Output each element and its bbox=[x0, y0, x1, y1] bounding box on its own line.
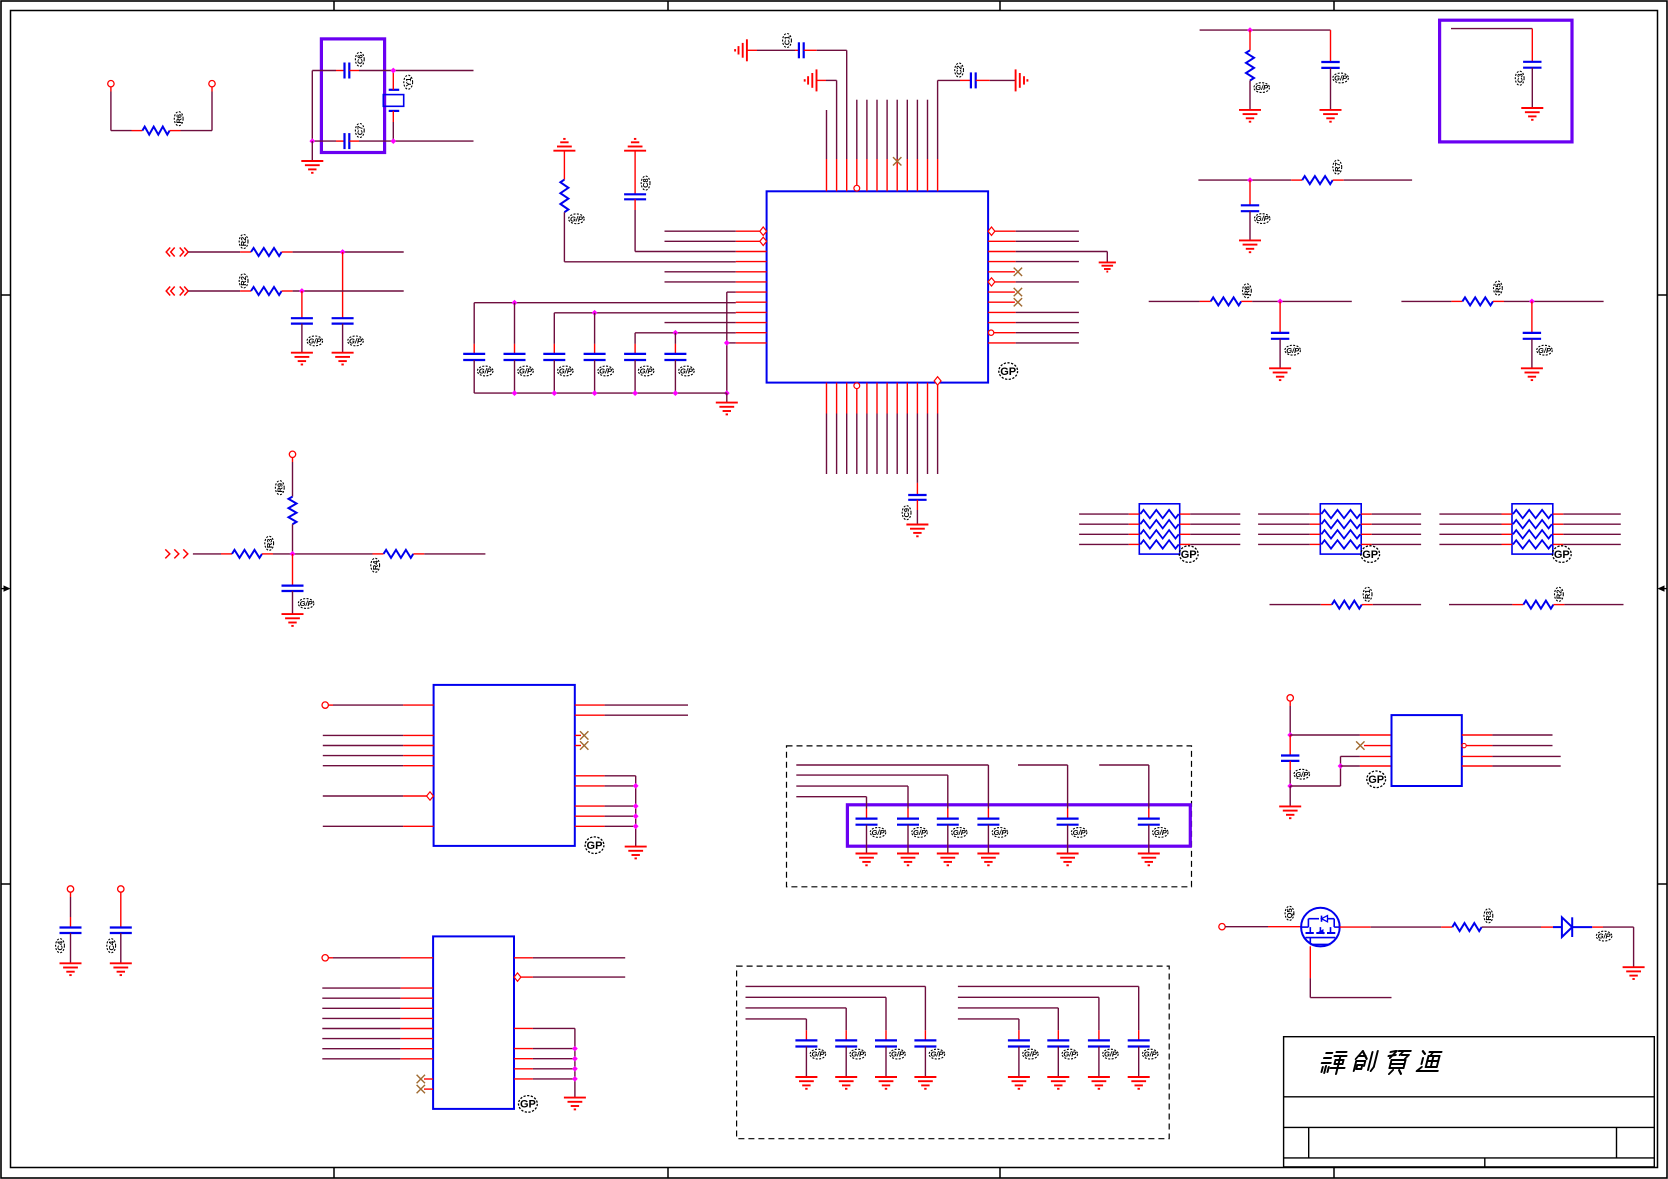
svg-text:G/P: G/P bbox=[1104, 1050, 1118, 1059]
svg-text:GP: GP bbox=[587, 840, 603, 852]
svg-text:G/P: G/P bbox=[300, 599, 314, 608]
svg-text:GP: GP bbox=[1181, 549, 1197, 561]
svg-text:GP: GP bbox=[520, 1099, 536, 1111]
svg-text:G/P: G/P bbox=[930, 1050, 944, 1059]
svg-text:G/P: G/P bbox=[1286, 346, 1300, 355]
svg-text:G/P: G/P bbox=[599, 367, 613, 376]
svg-text:G/P: G/P bbox=[993, 828, 1007, 837]
svg-text:R2: R2 bbox=[1555, 590, 1564, 600]
svg-text:C6: C6 bbox=[355, 55, 364, 65]
svg-text:G/P: G/P bbox=[640, 367, 654, 376]
svg-text:C4: C4 bbox=[56, 940, 65, 950]
svg-text:R6: R6 bbox=[174, 114, 183, 124]
svg-text:C2: C2 bbox=[955, 65, 964, 75]
svg-text:G/P: G/P bbox=[1295, 770, 1309, 779]
svg-text:G/P: G/P bbox=[953, 828, 967, 837]
svg-text:R2: R2 bbox=[239, 237, 248, 247]
svg-text:G/P: G/P bbox=[349, 337, 363, 346]
svg-text:R3: R3 bbox=[1484, 911, 1493, 921]
svg-text:G/P: G/P bbox=[851, 1050, 865, 1059]
svg-text:C3: C3 bbox=[1515, 73, 1524, 83]
svg-text:G/P: G/P bbox=[479, 367, 493, 376]
svg-text:C1: C1 bbox=[783, 36, 792, 46]
svg-text:R5: R5 bbox=[1494, 283, 1503, 293]
svg-text:R3: R3 bbox=[265, 539, 274, 549]
svg-text:G/P: G/P bbox=[1256, 214, 1270, 223]
svg-text:G/P: G/P bbox=[1334, 74, 1348, 83]
svg-text:G/P: G/P bbox=[1144, 1050, 1158, 1059]
svg-text:G/P: G/P bbox=[308, 337, 322, 346]
svg-text:R2: R2 bbox=[239, 276, 248, 286]
svg-text:R9: R9 bbox=[275, 483, 284, 493]
svg-text:GP: GP bbox=[1368, 774, 1384, 786]
svg-text:Q5: Q5 bbox=[1285, 908, 1294, 918]
svg-text:G/P: G/P bbox=[1598, 932, 1612, 941]
svg-text:R1: R1 bbox=[1363, 590, 1372, 600]
svg-text:G/P: G/P bbox=[1538, 346, 1552, 355]
svg-text:GP: GP bbox=[1362, 549, 1378, 561]
svg-text:G/P: G/P bbox=[913, 828, 927, 837]
svg-text:C9: C9 bbox=[902, 508, 911, 518]
svg-text:C4: C4 bbox=[107, 940, 116, 950]
svg-text:G/P: G/P bbox=[680, 367, 694, 376]
svg-text:G/P: G/P bbox=[1255, 83, 1269, 92]
svg-text:G/P: G/P bbox=[570, 214, 584, 223]
svg-text:R4: R4 bbox=[371, 560, 380, 570]
svg-text:GP: GP bbox=[1000, 366, 1016, 378]
svg-text:G/P: G/P bbox=[519, 367, 533, 376]
svg-text:G/P: G/P bbox=[1024, 1050, 1038, 1059]
svg-text:G/P: G/P bbox=[1073, 828, 1087, 837]
svg-text:C8: C8 bbox=[641, 178, 650, 188]
svg-text:G/P: G/P bbox=[559, 367, 573, 376]
svg-text:R7: R7 bbox=[1333, 162, 1342, 172]
svg-text:Y1: Y1 bbox=[404, 78, 413, 87]
svg-text:G/P: G/P bbox=[891, 1050, 905, 1059]
svg-text:G/P: G/P bbox=[1063, 1050, 1077, 1059]
svg-text:G/P: G/P bbox=[1154, 828, 1168, 837]
svg-text:C7: C7 bbox=[355, 126, 364, 136]
svg-text:G/P: G/P bbox=[811, 1050, 825, 1059]
svg-text:R8: R8 bbox=[1243, 286, 1252, 296]
svg-text:G/P: G/P bbox=[872, 828, 886, 837]
svg-text:GP: GP bbox=[1554, 549, 1570, 561]
